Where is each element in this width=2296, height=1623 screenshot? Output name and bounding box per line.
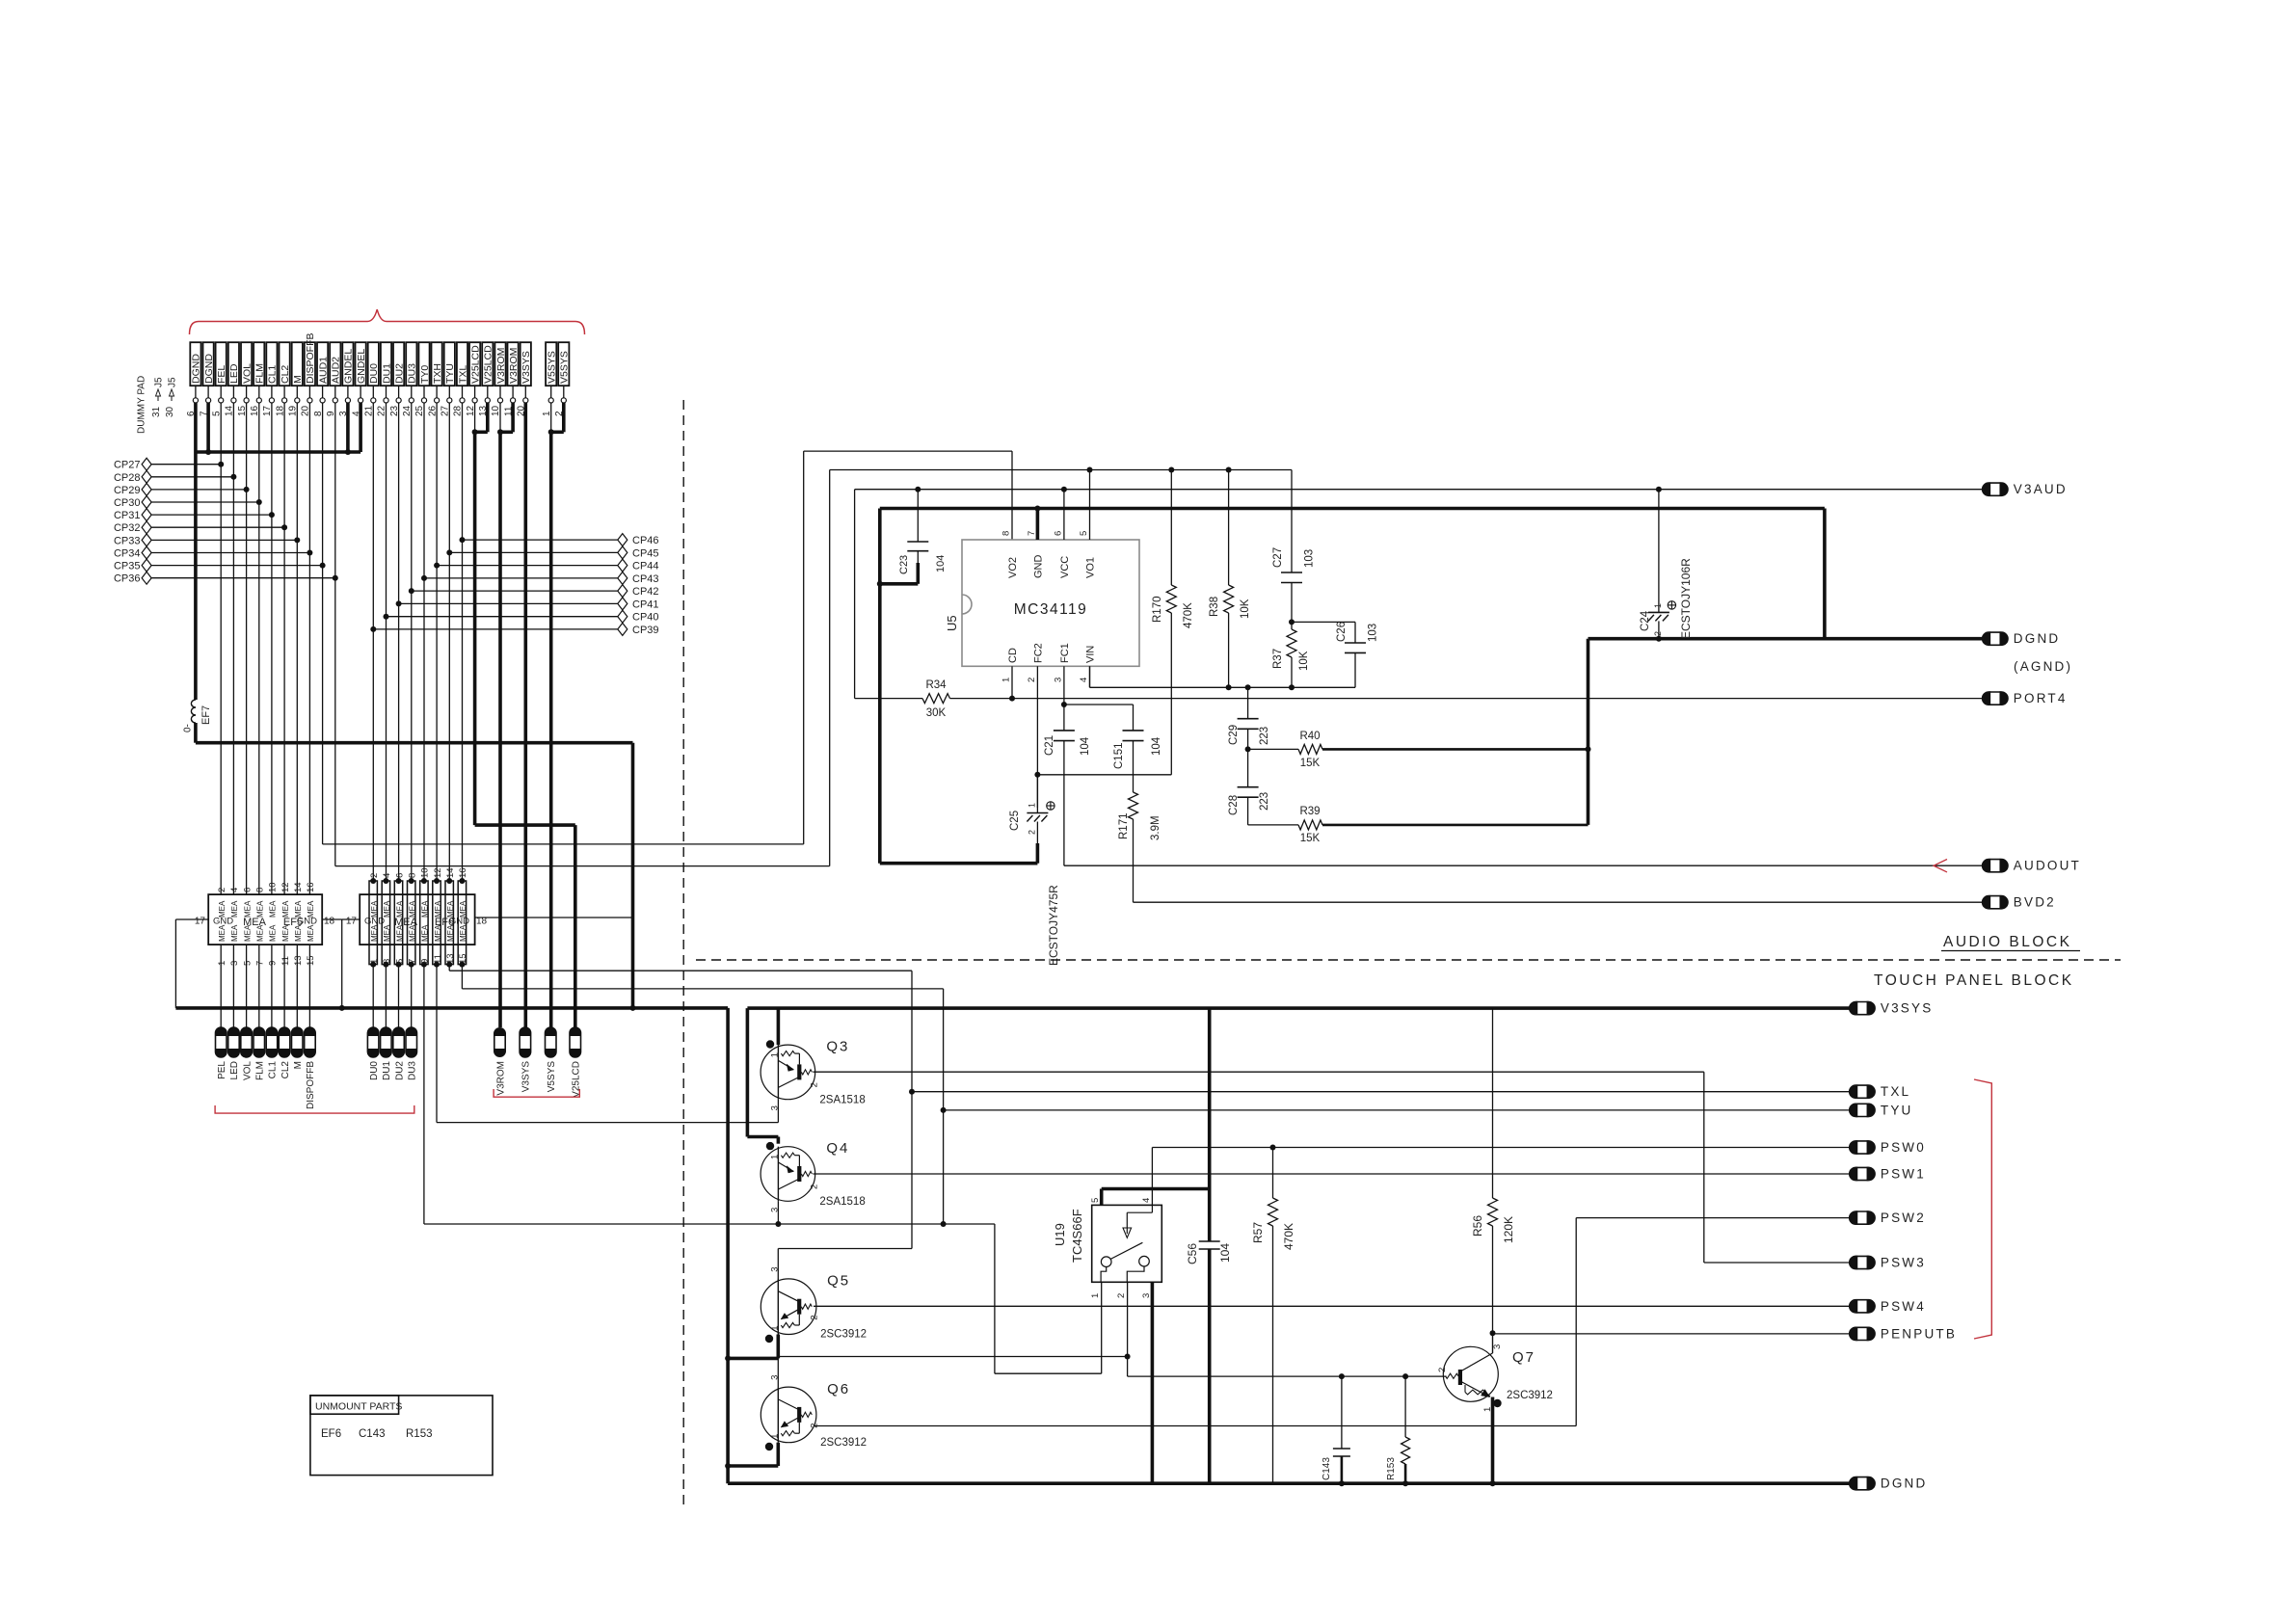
svg-text:7: 7 bbox=[1027, 531, 1037, 536]
svg-text:V3SYS: V3SYS bbox=[1881, 1001, 1934, 1016]
svg-text:PSW2: PSW2 bbox=[1881, 1211, 1926, 1225]
wire EF6 pin 3 to DU1 terminal bbox=[385, 965, 387, 1027]
svg-text:2SC3912: 2SC3912 bbox=[1507, 1390, 1553, 1401]
svg-text:1: 1 bbox=[769, 1325, 780, 1330]
svg-text:MEA: MEA bbox=[294, 924, 303, 942]
wire ground drop to DGND rail bbox=[631, 743, 635, 1008]
svg-text:UNMOUNT PARTS: UNMOUNT PARTS bbox=[315, 1401, 402, 1413]
resistor R40 15K bbox=[1248, 748, 1298, 750]
svg-text:V3SYS: V3SYS bbox=[521, 1061, 532, 1093]
svg-text:FEL: FEL bbox=[216, 365, 227, 384]
svg-text:Q6: Q6 bbox=[827, 1381, 850, 1397]
wire EF5 pin 11 to terminal bbox=[283, 945, 285, 1027]
svg-text:C143: C143 bbox=[1322, 1457, 1332, 1480]
svg-text:MEA: MEA bbox=[281, 924, 290, 942]
wire FLM column bbox=[258, 403, 260, 894]
wire VIN net bbox=[1089, 666, 1091, 687]
port V3SYS bbox=[1850, 1002, 1875, 1015]
svg-text:5: 5 bbox=[1079, 531, 1089, 536]
wire PORT4 net bbox=[950, 698, 1983, 700]
wire DU2 column bbox=[398, 403, 400, 881]
svg-text:TYU: TYU bbox=[1881, 1103, 1913, 1117]
wire EF7 ground rail to audio block bbox=[196, 741, 633, 745]
svg-text:3: 3 bbox=[769, 1266, 780, 1271]
svg-text:103: 103 bbox=[1304, 549, 1316, 568]
svg-text:M: M bbox=[292, 375, 304, 384]
wire VOL column bbox=[246, 403, 248, 894]
EF6 element rect pin 4/3 bbox=[382, 881, 389, 965]
svg-text:8: 8 bbox=[408, 873, 418, 878]
red arrow on AUDOUT bbox=[1934, 860, 1947, 872]
svg-text:C56: C56 bbox=[1186, 1243, 1199, 1264]
resistor R34 30K bbox=[855, 698, 922, 700]
svg-text:31: 31 bbox=[151, 406, 162, 417]
svg-text:6: 6 bbox=[394, 873, 405, 878]
wire FC2 to R170 bottom bbox=[1034, 772, 1040, 778]
svg-text:CP43: CP43 bbox=[632, 573, 659, 585]
svg-text:DUMMY PAD: DUMMY PAD bbox=[137, 376, 147, 434]
svg-text:CP36: CP36 bbox=[114, 573, 141, 585]
svg-text:CP42: CP42 bbox=[632, 586, 659, 598]
wire AUD1 to U5 VO2 bbox=[323, 843, 804, 845]
svg-text:11: 11 bbox=[433, 954, 443, 964]
svg-text:MEA: MEA bbox=[383, 900, 391, 918]
svg-text:U19: U19 bbox=[1053, 1223, 1067, 1246]
wire DGND pins to ground bus bbox=[194, 403, 198, 452]
svg-text:9: 9 bbox=[268, 961, 279, 966]
svg-text:V3AUD: V3AUD bbox=[2014, 482, 2068, 496]
svg-text:5: 5 bbox=[1090, 1198, 1101, 1203]
wire PENPUTB net bbox=[1490, 1330, 1496, 1336]
svg-text:DU3: DU3 bbox=[408, 1061, 418, 1080]
svg-text:DU2: DU2 bbox=[393, 363, 405, 384]
wire Q3 emitter to EF6 pin 11 line bbox=[777, 1100, 779, 1123]
red bracket right terminal group bbox=[494, 1089, 579, 1097]
wire Q6 emitter to ground bbox=[765, 1443, 773, 1450]
port BVD2 bbox=[1983, 896, 2008, 909]
capacitor C25 ECSTOJY475R electrolytic bbox=[1036, 774, 1038, 813]
svg-text:M: M bbox=[293, 1061, 304, 1069]
port AUDOUT bbox=[1983, 860, 2008, 872]
wire EF6 pin 11 to Q3 emitter bbox=[436, 965, 438, 1123]
svg-text:MC34119: MC34119 bbox=[1014, 601, 1088, 618]
svg-text:4: 4 bbox=[1141, 1198, 1152, 1203]
svg-text:223: 223 bbox=[1259, 727, 1270, 745]
connector J5 pin 22 DU1 bbox=[381, 342, 391, 386]
svg-text:18: 18 bbox=[324, 917, 335, 927]
svg-text:1: 1 bbox=[1028, 803, 1037, 808]
wire EF5 GND pin 17 bbox=[175, 918, 208, 920]
svg-text:2: 2 bbox=[1437, 1368, 1448, 1372]
svg-text:TYU: TYU bbox=[444, 363, 456, 384]
svg-text:3: 3 bbox=[1492, 1344, 1503, 1349]
svg-text:3: 3 bbox=[1141, 1293, 1152, 1298]
connector J5 pin 18 CL2 bbox=[280, 342, 290, 386]
node CP44 bbox=[434, 563, 440, 569]
svg-text:MEA: MEA bbox=[459, 900, 467, 918]
wire DGND horizontal rail bbox=[175, 1006, 728, 1010]
EF6 element rect pin 8/7 bbox=[408, 881, 415, 965]
connector J5 pin 27 TYU bbox=[444, 342, 455, 386]
svg-text:Q4: Q4 bbox=[826, 1140, 849, 1157]
svg-text:2SC3912: 2SC3912 bbox=[820, 1437, 867, 1449]
wire Q6 collector to PSW2 bbox=[814, 1425, 1576, 1427]
wire AUD2 column bbox=[334, 403, 336, 866]
svg-text:DU0: DU0 bbox=[368, 363, 380, 384]
svg-text:V3ROM: V3ROM bbox=[495, 1061, 506, 1096]
wire BVD2 net bbox=[1134, 901, 1983, 903]
terminal CL1 bbox=[266, 1027, 278, 1057]
table UNMOUNT PARTS bbox=[310, 1396, 493, 1476]
svg-text:C25: C25 bbox=[1009, 811, 1021, 831]
connector J5 pin 13 V25LCD bbox=[482, 342, 493, 386]
connector J5 pin 6 DGND bbox=[190, 342, 200, 386]
svg-text:MEA: MEA bbox=[218, 900, 227, 918]
wire V3SYS drop to Q4 base bbox=[746, 1008, 750, 1136]
svg-text:MEA: MEA bbox=[446, 924, 455, 942]
connector J5 pin 20 DISPOFFB bbox=[305, 342, 315, 386]
svg-text:V3ROM: V3ROM bbox=[495, 348, 507, 384]
svg-text:MEA: MEA bbox=[256, 900, 265, 918]
wire Q4 emitter down bbox=[777, 1201, 779, 1224]
terminal V3ROM bbox=[494, 1028, 505, 1056]
svg-text:Q7: Q7 bbox=[1512, 1349, 1535, 1366]
svg-text:104: 104 bbox=[935, 555, 947, 572]
svg-text:10K: 10K bbox=[1240, 599, 1251, 619]
svg-text:104: 104 bbox=[1218, 1243, 1232, 1263]
svg-text:MEA: MEA bbox=[395, 900, 404, 918]
capacitor C29 223 bbox=[1247, 687, 1249, 718]
svg-text:103: 103 bbox=[1368, 624, 1379, 642]
capacitor C143 (unmounted) bbox=[1341, 1376, 1343, 1449]
wire DU1 column bbox=[386, 403, 387, 881]
svg-text:13: 13 bbox=[445, 953, 456, 964]
wire AUD1 column bbox=[322, 403, 324, 844]
connector J5 pin 5 FEL bbox=[216, 342, 227, 386]
wire EF6 pin 9 to Q4 collector node bbox=[423, 965, 425, 1224]
svg-text:CL1: CL1 bbox=[268, 1061, 279, 1079]
svg-text:C26: C26 bbox=[1336, 622, 1348, 642]
wire EF6 pin 7 to DU3 terminal bbox=[411, 965, 413, 1027]
svg-text:FLM: FLM bbox=[254, 363, 266, 384]
svg-text:2: 2 bbox=[1116, 1293, 1127, 1298]
svg-text:ECSTOJY106R: ECSTOJY106R bbox=[1679, 558, 1693, 639]
port V3AUD bbox=[1983, 483, 2008, 495]
resistor R171 3.9M bbox=[1133, 741, 1135, 792]
capacitor C28 223 bbox=[1247, 749, 1249, 786]
svg-text:DU2: DU2 bbox=[394, 1061, 405, 1080]
wire CL1 column bbox=[271, 403, 273, 894]
svg-text:CP33: CP33 bbox=[114, 535, 141, 546]
wire EF5 pin 3 to terminal bbox=[232, 945, 234, 1027]
svg-text:C27: C27 bbox=[1272, 547, 1284, 568]
svg-text:3.9M: 3.9M bbox=[1150, 815, 1161, 840]
svg-text:470K: 470K bbox=[1282, 1223, 1295, 1250]
connector J5 pin 25 TY0 bbox=[418, 342, 429, 386]
wire V25LCD jog to terminal bbox=[475, 823, 575, 827]
capacitor C151 104 bbox=[1123, 730, 1144, 732]
svg-text:TXL: TXL bbox=[457, 365, 468, 384]
EF6 element rect pin 6/5 bbox=[394, 881, 402, 965]
svg-text:V5SYS: V5SYS bbox=[547, 351, 558, 384]
svg-text:CP45: CP45 bbox=[632, 547, 659, 559]
node CP39 bbox=[370, 626, 376, 632]
terminal V5SYS bbox=[546, 1027, 557, 1057]
svg-text:MEA: MEA bbox=[434, 924, 442, 942]
U19 switch symbol bbox=[1151, 1205, 1153, 1212]
svg-text:CP29: CP29 bbox=[114, 485, 141, 496]
node CP45 bbox=[446, 549, 452, 555]
svg-text:17: 17 bbox=[346, 917, 358, 927]
svg-text:9: 9 bbox=[420, 959, 431, 964]
svg-text:CP44: CP44 bbox=[632, 561, 659, 572]
svg-text:VIN: VIN bbox=[1085, 646, 1097, 663]
wire EF5 pin 9 to terminal bbox=[271, 945, 273, 1027]
wire bottom DGND rail bbox=[728, 1481, 1850, 1485]
wire EF5 pin 7 to terminal bbox=[258, 945, 260, 1027]
U5 pin 7 GND bbox=[1036, 509, 1040, 541]
svg-text:14: 14 bbox=[293, 882, 304, 892]
analog switch U19 TC4S66F bbox=[1092, 1205, 1162, 1282]
U5 pin 4 VIN bbox=[1089, 666, 1091, 687]
connector J5 pin 20 V3SYS bbox=[521, 342, 531, 386]
svg-text:DGND: DGND bbox=[203, 354, 215, 384]
connector J5 pin 7 DGND bbox=[203, 342, 214, 386]
wire TXL riser to Q5 collector bbox=[778, 1248, 912, 1250]
svg-text:GNDEL: GNDEL bbox=[356, 349, 367, 384]
capacitor C21 104 bbox=[1054, 730, 1075, 732]
connector J5 pin 9 AUD2 bbox=[330, 342, 340, 386]
svg-text:TXL: TXL bbox=[1881, 1084, 1910, 1099]
wire Q6 base link to U19 pin 2 bbox=[777, 1357, 779, 1388]
svg-text:CL2: CL2 bbox=[280, 365, 291, 384]
transistor Q7 2SC3912 bbox=[1443, 1346, 1498, 1401]
svg-text:R57: R57 bbox=[1251, 1222, 1265, 1243]
EF6 element rect pin 2/1 bbox=[369, 881, 377, 965]
svg-text:MEA: MEA bbox=[294, 900, 303, 918]
svg-text:7: 7 bbox=[408, 959, 418, 964]
svg-text:2: 2 bbox=[217, 888, 227, 892]
wire M column bbox=[296, 403, 298, 894]
connector J5 pin 4 GNDEL bbox=[356, 342, 366, 386]
svg-text:1: 1 bbox=[1090, 1293, 1101, 1298]
svg-text:V3ROM: V3ROM bbox=[508, 348, 520, 384]
svg-text:Q3: Q3 bbox=[826, 1038, 849, 1054]
wire EF6 pin 5 to DU2 terminal bbox=[398, 965, 400, 1027]
svg-text:ECSTOJY475R: ECSTOJY475R bbox=[1047, 885, 1060, 966]
connector J5 pin 14 LED bbox=[228, 342, 239, 386]
svg-text:15: 15 bbox=[306, 955, 316, 966]
svg-text:R37: R37 bbox=[1272, 649, 1284, 669]
resistor R39 15K bbox=[1248, 824, 1298, 826]
svg-text:R34: R34 bbox=[925, 679, 947, 691]
U5 pin 1 CD bbox=[1011, 666, 1013, 698]
svg-text:CL1: CL1 bbox=[267, 365, 279, 384]
wire CL2 column bbox=[283, 403, 285, 894]
svg-text:MEA: MEA bbox=[230, 900, 239, 918]
svg-text:R170: R170 bbox=[1152, 597, 1163, 624]
svg-text:10: 10 bbox=[268, 882, 279, 892]
svg-text:C29: C29 bbox=[1228, 725, 1240, 745]
port TYU bbox=[1850, 1104, 1875, 1116]
capacitor C27 103 bbox=[1291, 470, 1293, 573]
svg-text:CP32: CP32 bbox=[114, 522, 141, 534]
svg-text:PEL: PEL bbox=[217, 1061, 227, 1079]
svg-text:R171: R171 bbox=[1118, 813, 1130, 840]
wire V5SYS pair merge bbox=[550, 403, 552, 432]
U19 pin 5 bbox=[1100, 1189, 1104, 1206]
svg-text:2: 2 bbox=[1028, 830, 1037, 835]
filter array EF6 (unmounted) bbox=[360, 894, 474, 945]
svg-text:MEA: MEA bbox=[218, 924, 227, 942]
svg-text:CP35: CP35 bbox=[114, 561, 141, 572]
svg-text:2: 2 bbox=[809, 1315, 819, 1319]
wire DU3 column bbox=[411, 403, 413, 881]
svg-text:CL2: CL2 bbox=[280, 1061, 291, 1079]
wire DGND riser to R40 R39 bbox=[1587, 639, 1590, 825]
svg-text:MEA: MEA bbox=[383, 924, 391, 942]
svg-text:TOUCH PANEL BLOCK: TOUCH PANEL BLOCK bbox=[1874, 972, 2074, 989]
wire TXL line to port bbox=[912, 1091, 1850, 1093]
connector J5 pin 24 DU3 bbox=[406, 342, 416, 386]
connector J5 pin 28 TXL bbox=[457, 342, 467, 386]
svg-text:V25LCD: V25LCD bbox=[469, 345, 481, 384]
svg-text:VO1: VO1 bbox=[1085, 557, 1097, 578]
resistor R57 470K bbox=[1272, 1148, 1274, 1199]
connector J5 pin 2 V5SYS bbox=[558, 342, 569, 386]
svg-text:13: 13 bbox=[293, 955, 304, 966]
connector J5 pin 8 AUD1 bbox=[317, 342, 328, 386]
svg-text:DU3: DU3 bbox=[407, 363, 418, 384]
svg-text:CP41: CP41 bbox=[632, 599, 659, 610]
resistor R38 10K bbox=[1228, 470, 1230, 586]
EF6 element rect pin 10/9 bbox=[420, 881, 428, 965]
svg-text:14: 14 bbox=[445, 867, 456, 878]
wire Q7 emitter to ground rail bbox=[1491, 1397, 1495, 1484]
svg-text:CP30: CP30 bbox=[114, 497, 141, 509]
terminal M bbox=[292, 1027, 304, 1057]
wire ground drop left rail bbox=[726, 1008, 730, 1483]
terminal FLM bbox=[254, 1027, 265, 1057]
svg-text:MEA: MEA bbox=[256, 924, 265, 942]
transistor Q4 2SA1518 bbox=[761, 1147, 815, 1202]
node CP43 bbox=[421, 575, 427, 581]
wire AGND to DGND port riser bbox=[1823, 509, 1827, 639]
svg-text:12: 12 bbox=[280, 882, 291, 892]
wire DGND (AGND) port line bbox=[1589, 637, 1983, 641]
svg-text:VO2: VO2 bbox=[1007, 557, 1019, 578]
port PSW2 bbox=[1850, 1211, 1875, 1224]
connector J5 pin 16 FLM bbox=[254, 342, 264, 386]
svg-text:1: 1 bbox=[769, 1052, 780, 1057]
svg-text:10: 10 bbox=[420, 867, 431, 878]
wire EF5 pin 13 to terminal bbox=[296, 945, 298, 1027]
svg-text:CP31: CP31 bbox=[114, 510, 141, 521]
svg-text:EF7: EF7 bbox=[200, 705, 212, 725]
wire TY0 column bbox=[423, 403, 425, 881]
svg-text:V5SYS: V5SYS bbox=[547, 1061, 557, 1093]
svg-text:U5: U5 bbox=[945, 615, 959, 631]
svg-text:1: 1 bbox=[769, 1434, 780, 1439]
svg-text:2: 2 bbox=[369, 873, 380, 878]
svg-text:DGND: DGND bbox=[1881, 1477, 1928, 1491]
svg-text:R56: R56 bbox=[1471, 1215, 1484, 1237]
svg-text:MEA: MEA bbox=[269, 924, 278, 942]
node CP41 bbox=[396, 600, 402, 606]
port PSW3 bbox=[1850, 1256, 1875, 1268]
svg-text:GND: GND bbox=[1033, 555, 1045, 579]
wire EF5 pin 5 to terminal bbox=[246, 945, 248, 1027]
svg-text:PORT4: PORT4 bbox=[2014, 691, 2068, 705]
svg-text:MEA: MEA bbox=[370, 924, 379, 942]
connector J5 pin 26 TXH bbox=[432, 342, 442, 386]
svg-text:EF6: EF6 bbox=[321, 1428, 341, 1440]
svg-text:MEA: MEA bbox=[459, 924, 467, 942]
port PSW1 bbox=[1850, 1167, 1875, 1180]
connector J5 pin 3 GNDEL bbox=[342, 342, 353, 386]
port DGND bottom bbox=[1850, 1477, 1875, 1490]
svg-text:MEA: MEA bbox=[269, 900, 278, 918]
U5 pin 6 VCC bbox=[1063, 490, 1065, 540]
svg-text:TXH: TXH bbox=[432, 363, 443, 384]
U5 pin 5 VO1 bbox=[1089, 470, 1091, 541]
port PSW0 bbox=[1850, 1141, 1875, 1154]
connector J5 pin 19 M bbox=[292, 342, 303, 386]
svg-text:16: 16 bbox=[306, 882, 316, 892]
svg-text:MEA: MEA bbox=[307, 924, 315, 942]
terminal CL2 bbox=[279, 1027, 290, 1057]
svg-text:R153: R153 bbox=[1386, 1457, 1397, 1480]
svg-text:3: 3 bbox=[229, 961, 240, 966]
port PENPUTB bbox=[1850, 1327, 1875, 1340]
svg-text:BVD2: BVD2 bbox=[2014, 895, 2056, 910]
svg-text:FC2: FC2 bbox=[1033, 643, 1045, 663]
svg-text:CP39: CP39 bbox=[632, 625, 659, 636]
wire AGND thick rail bbox=[878, 509, 882, 864]
svg-text:MEA: MEA bbox=[409, 924, 417, 942]
node CP40 bbox=[384, 614, 389, 620]
svg-text:2: 2 bbox=[1653, 631, 1663, 636]
wire TXH column bbox=[436, 403, 438, 881]
svg-text:CP28: CP28 bbox=[114, 472, 141, 484]
svg-text:MEA: MEA bbox=[243, 924, 252, 942]
node CP42 bbox=[409, 588, 414, 594]
resistor R37 10K bbox=[1291, 622, 1293, 629]
transistor Q5 2SC3912 bbox=[761, 1279, 816, 1335]
svg-text:1: 1 bbox=[1001, 678, 1012, 682]
svg-text:MEA: MEA bbox=[281, 900, 290, 918]
svg-text:C28: C28 bbox=[1228, 795, 1240, 815]
port PORT4 bbox=[1983, 692, 2008, 705]
svg-text:DISPOFFB: DISPOFFB bbox=[305, 333, 316, 384]
port DGND (AGND) bbox=[1983, 632, 2008, 645]
svg-text:R153: R153 bbox=[406, 1428, 433, 1440]
svg-text:3: 3 bbox=[382, 959, 392, 964]
svg-text:R39: R39 bbox=[1299, 806, 1320, 817]
capacitor C23 104 bbox=[917, 490, 919, 542]
ground bus bbox=[196, 450, 360, 454]
dashed block separator horizontal bbox=[696, 959, 2121, 961]
svg-text:1: 1 bbox=[1653, 603, 1663, 608]
capacitor C24 ECSTOJY106R electrolytic bbox=[1658, 490, 1660, 613]
terminal DISPOFFB bbox=[305, 1027, 316, 1057]
wire DISPOFFB column bbox=[308, 403, 310, 894]
wire TXL column bbox=[462, 403, 464, 881]
terminal V3SYS bbox=[520, 1027, 531, 1057]
svg-text:4: 4 bbox=[382, 873, 392, 878]
connector J5 pin 15 VOL bbox=[241, 342, 252, 386]
wire EF6 pin 1 to DU0 terminal bbox=[372, 965, 374, 1027]
